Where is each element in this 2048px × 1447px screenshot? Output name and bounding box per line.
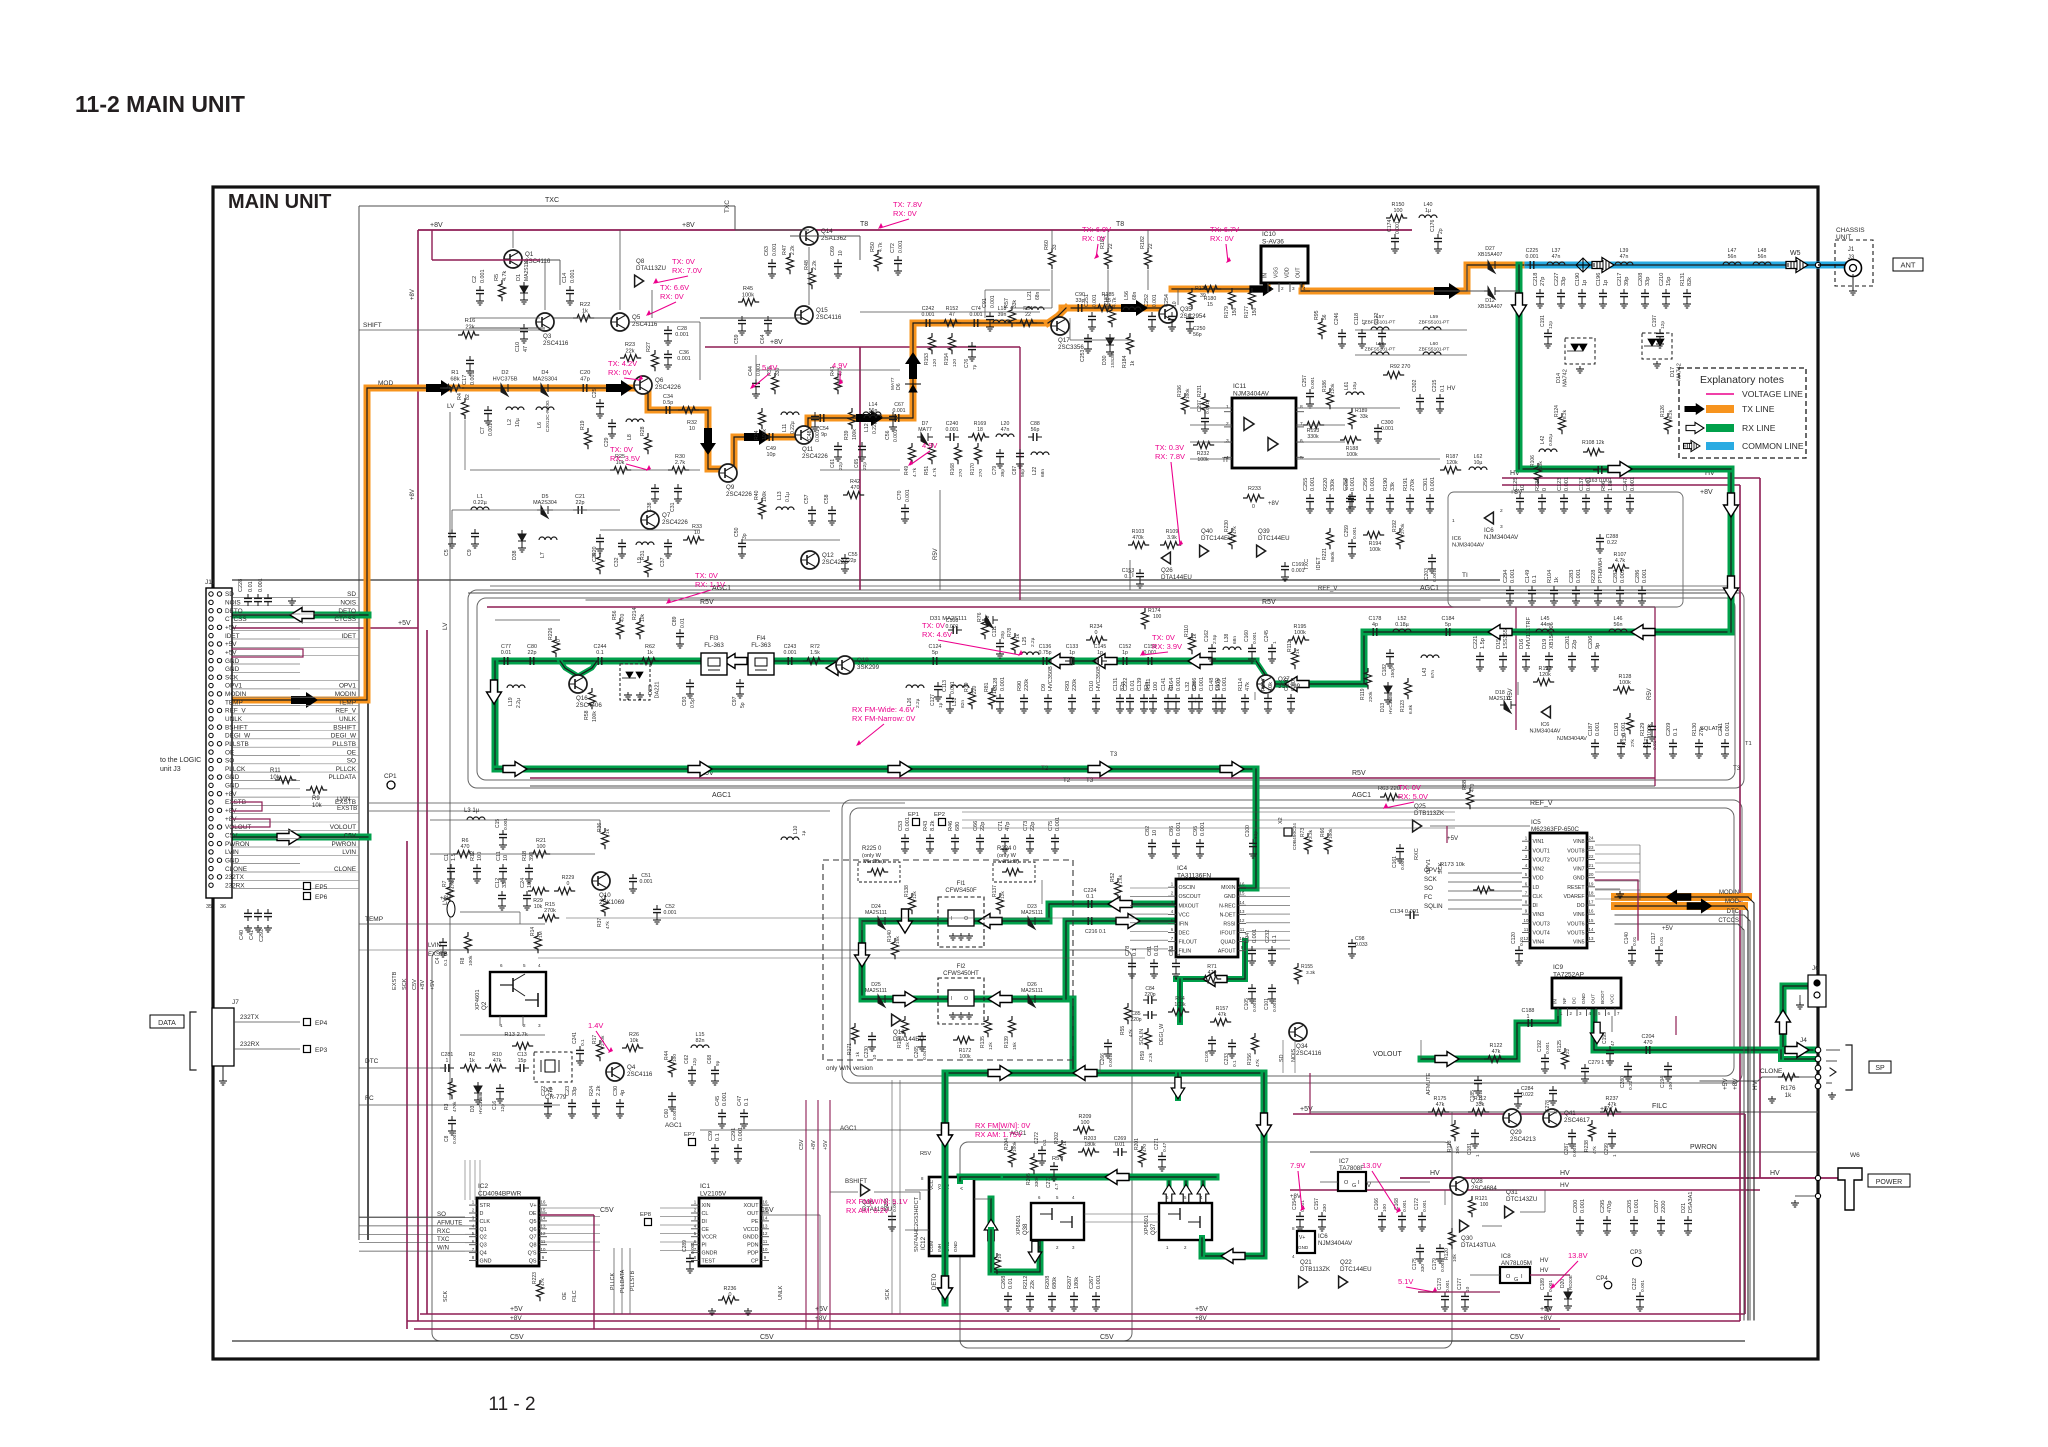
inductor L1 [471, 507, 489, 510]
capacitor C105 [1251, 984, 1253, 988]
test point CP4 [1604, 1281, 1612, 1289]
svg-text:56p: 56p [1020, 469, 1026, 477]
svg-text:R195: R195 [1294, 624, 1307, 630]
diode D14 MA742 dashed [1565, 338, 1595, 364]
resistor R51 [929, 443, 936, 464]
svg-text:I: I [951, 996, 952, 1002]
svg-text:10k: 10k [312, 803, 323, 809]
svg-text:0.01: 0.01 [1154, 945, 1160, 956]
svg-text:470p: 470p [1607, 1201, 1613, 1213]
svg-text:0: 0 [1252, 504, 1255, 510]
svg-text:C218: C218 [1533, 273, 1539, 286]
transistor pair Q38 XP6501 [1031, 1203, 1084, 1240]
capacitor C81 [1153, 959, 1155, 963]
svg-text:L45: L45 [1541, 616, 1550, 622]
capacitor C134 [1405, 914, 1410, 916]
svg-text:R5V: R5V [700, 599, 714, 606]
svg-text:7p: 7p [972, 364, 978, 370]
capacitor C206 [1594, 652, 1596, 656]
svg-text:OE: OE [529, 1211, 537, 1217]
svg-text:J6: J6 [1812, 965, 1819, 972]
svg-text:22p: 22p [862, 462, 868, 470]
resistor R184 [1127, 333, 1134, 354]
svg-text:Q29: Q29 [1510, 1129, 1522, 1136]
svg-text:R108 12k: R108 12k [1582, 440, 1605, 446]
capacitor C291 [737, 1144, 739, 1148]
svg-text:TX: 0.3V: TX: 0.3V [1155, 443, 1184, 452]
capacitor C40 C41 C292 group [247, 909, 249, 913]
ANT label box [1893, 258, 1923, 271]
svg-text:L15: L15 [696, 1032, 705, 1038]
svg-text:AGC1: AGC1 [1352, 792, 1371, 799]
svg-text:CP3: CP3 [1630, 1250, 1642, 1256]
svg-text:VCC: VCC [929, 1179, 935, 1190]
svg-text:C53: C53 [898, 821, 904, 831]
svg-text:4.7k: 4.7k [502, 271, 508, 281]
transistor Q4 [606, 1063, 624, 1081]
svg-text:10: 10 [763, 1247, 768, 1252]
resistor R22 [573, 315, 594, 322]
svg-text:unit J3: unit J3 [160, 766, 181, 773]
svg-text:Q6: Q6 [529, 1227, 536, 1233]
wire R5V branch vertical [1515, 607, 1517, 730]
svg-text:47k: 47k [1492, 1049, 1501, 1055]
svg-text:NJM3404AV: NJM3404AV [1452, 543, 1484, 549]
transistor Q26 [1161, 552, 1170, 564]
resistor R152 [940, 320, 961, 327]
analog switch IC12 SN74AHC2G53HDCT [929, 1177, 974, 1256]
svg-text:VIN6: VIN6 [1573, 912, 1585, 918]
svg-text:C187: C187 [1588, 723, 1594, 736]
diode D7 [917, 433, 933, 445]
capacitor C299 [1611, 1129, 1613, 1133]
resistor R234 [1086, 637, 1107, 644]
svg-text:0: 0 [729, 1292, 732, 1298]
svg-text:120: 120 [952, 359, 958, 367]
svg-text:L21: L21 [1027, 291, 1033, 300]
svg-text:SO: SO [347, 758, 356, 765]
svg-text:+8V: +8V [1195, 1315, 1207, 1322]
svg-text:2.2µ: 2.2µ [516, 698, 522, 708]
svg-text:Q3: Q3 [543, 333, 552, 340]
svg-text:L57: L57 [1376, 314, 1384, 320]
transistor Q15 [795, 306, 813, 324]
svg-text:220: 220 [972, 685, 978, 694]
svg-text:C188: C188 [1522, 1008, 1535, 1014]
svg-text:PLLSTB: PLLSTB [630, 1271, 636, 1291]
wire 232RX [234, 1048, 300, 1050]
svg-text:VCCR: VCCR [702, 1235, 717, 1241]
capacitor C204 [1641, 1049, 1646, 1051]
wire RX line Q37 stub overlay [1199, 1238, 1205, 1256]
capacitor C1 [450, 864, 452, 868]
svg-text:DTC144EU: DTC144EU [1340, 1266, 1372, 1273]
resistor R195 [1288, 637, 1309, 644]
svg-text:QUAD: QUAD [1221, 940, 1236, 946]
capacitor C22 [547, 1099, 549, 1103]
svg-text:MA742: MA742 [1676, 363, 1682, 381]
svg-text:C178: C178 [1369, 616, 1382, 622]
svg-text:C163 0.001: C163 0.001 [1585, 478, 1612, 484]
svg-text:R153: R153 [924, 353, 930, 365]
svg-text:15k: 15k [1012, 1042, 1018, 1050]
svg-text:1: 1 [1226, 404, 1229, 410]
wire TX line Q6-Q9 jog [648, 388, 726, 469]
inductor L37 [1547, 262, 1565, 265]
svg-text:47k: 47k [605, 921, 611, 929]
wire SD NOIS risers [1282, 1040, 1284, 1073]
svg-text:+5V: +5V [1662, 926, 1673, 932]
resistor R72 [803, 658, 824, 665]
svg-text:C118: C118 [1354, 313, 1360, 325]
svg-text:LV: LV [442, 622, 449, 630]
inductor L18 [993, 320, 1011, 323]
svg-text:14: 14 [763, 1215, 768, 1220]
svg-text:680: 680 [955, 822, 961, 831]
J11 pin LVIN [209, 850, 213, 854]
svg-text:C5V: C5V [1100, 1334, 1114, 1341]
resistor R39 [849, 408, 856, 429]
svg-text:0.82µ: 0.82µ [1548, 434, 1554, 446]
svg-text:DEC: DEC [1179, 931, 1190, 937]
capacitor C56 [892, 412, 894, 416]
capacitor C71 [1004, 834, 1006, 838]
legend TX line [1706, 405, 1734, 413]
svg-text:X2: X2 [1278, 817, 1284, 824]
svg-text:2SC4116: 2SC4116 [627, 1071, 653, 1078]
capacitor C101 [1271, 984, 1273, 988]
svg-text:R124: R124 [1554, 405, 1560, 417]
svg-text:OUT: OUT [747, 1211, 759, 1217]
svg-text:C60: C60 [664, 1109, 670, 1118]
capacitor C259 [1351, 539, 1353, 543]
resistor R171 [852, 1023, 859, 1044]
svg-text:IC11: IC11 [1233, 383, 1247, 390]
svg-text:33p: 33p [1645, 277, 1651, 286]
svg-text:Q5: Q5 [632, 314, 641, 321]
capacitor C184 [1441, 631, 1446, 633]
svg-text:C299: C299 [1604, 1143, 1610, 1155]
resistor R224 dashed only W [993, 862, 1035, 882]
wire RX line Q16 dip [560, 661, 597, 676]
svg-text:C246: C246 [1334, 312, 1340, 325]
capacitor C20 [578, 387, 583, 389]
svg-text:47k: 47k [540, 1278, 546, 1286]
svg-text:R7: R7 [442, 880, 448, 887]
svg-text:R31: R31 [640, 550, 646, 560]
svg-text:0.001: 0.001 [672, 1108, 678, 1120]
svg-text:C279 1: C279 1 [1588, 1060, 1604, 1066]
svg-text:+5V: +5V [398, 620, 411, 627]
svg-text:0.001: 0.001 [1630, 477, 1636, 491]
svg-text:EXSTB: EXSTB [392, 971, 398, 990]
resistor R168 [955, 443, 962, 464]
wire L3 temp mesh [460, 911, 520, 913]
capacitor C86 [1175, 839, 1177, 843]
capacitor C191 [1547, 329, 1549, 333]
svg-text:R168: R168 [950, 463, 956, 475]
capacitor C215 [1439, 394, 1441, 398]
svg-text:2: 2 [1281, 286, 1284, 291]
svg-text:R113: R113 [1287, 640, 1293, 652]
svg-text:68n: 68n [1040, 469, 1046, 477]
resistor R183 [1109, 306, 1116, 327]
capacitor C28 [667, 326, 669, 330]
svg-text:82n: 82n [696, 1038, 705, 1044]
svg-text:C66: C66 [973, 821, 979, 831]
svg-text:R233: R233 [1248, 486, 1261, 492]
svg-text:PLLCK: PLLCK [336, 766, 357, 773]
svg-text:11: 11 [1524, 927, 1529, 932]
inductor L43 [1421, 655, 1439, 658]
capacitor C162 [1211, 644, 1213, 648]
svg-text:+5V: +5V [1195, 1306, 1208, 1313]
svg-text:HVC350B: HVC350B [1388, 694, 1393, 714]
capacitor C21 [573, 509, 578, 511]
svg-text:6: 6 [500, 963, 503, 968]
svg-text:W5: W5 [1790, 250, 1801, 257]
wire C5V left vertical rail [406, 841, 408, 1329]
J11 pin GND [209, 775, 213, 779]
capacitor C228 group [247, 594, 249, 598]
svg-text:0.001: 0.001 [1440, 1260, 1446, 1272]
svg-text:R11: R11 [270, 768, 281, 774]
diode D2 [497, 384, 513, 396]
node W5 junction [1849, 262, 1855, 268]
svg-text:C134 0.001: C134 0.001 [1390, 909, 1419, 915]
inductor L7 [539, 537, 557, 540]
inductor L8 [626, 419, 644, 422]
wire Q14 emitter [790, 235, 860, 237]
svg-text:C11: C11 [496, 851, 502, 861]
svg-text:C140: C140 [1624, 932, 1630, 944]
inductor L11 [781, 412, 799, 415]
wire RX line DETO down [942, 1073, 949, 1177]
resistor R225 dashed only W [858, 862, 900, 882]
svg-text:C93: C93 [682, 696, 688, 706]
resistor R138 [909, 893, 916, 914]
resistor R19 [585, 428, 592, 449]
svg-text:AFOUT: AFOUT [1218, 949, 1236, 955]
svg-text:R32: R32 [687, 420, 697, 426]
svg-text:47p: 47p [580, 377, 590, 383]
svg-text:120k: 120k [1446, 460, 1458, 466]
capacitor C13 [515, 1067, 520, 1069]
svg-text:SCK: SCK [1424, 876, 1438, 883]
capacitor C241 [579, 1046, 581, 1050]
svg-text:DI: DI [702, 1219, 707, 1225]
svg-text:RX: 3.5V: RX: 3.5V [610, 454, 640, 463]
J11 pin DETO [209, 608, 213, 612]
resistor R1 [443, 385, 464, 392]
svg-text:0.01: 0.01 [1652, 740, 1658, 750]
svg-text:R5V: R5V [1647, 688, 1653, 700]
svg-text:470: 470 [1142, 1144, 1148, 1152]
svg-text:T2: T2 [1041, 765, 1049, 772]
svg-text:10k: 10k [630, 1038, 639, 1044]
svg-text:MA2S111: MA2S111 [1021, 988, 1043, 994]
svg-text:1k: 1k [1785, 1092, 1793, 1099]
svg-text:CLONE: CLONE [334, 866, 356, 873]
svg-text:DTC144EU: DTC144EU [1258, 535, 1290, 542]
capacitor C45 [721, 1109, 723, 1113]
svg-text:V+: V+ [1299, 1235, 1305, 1241]
svg-text:0.001: 0.001 [677, 356, 691, 362]
svg-text:C28: C28 [677, 326, 687, 332]
svg-text:C241: C241 [572, 1032, 578, 1044]
svg-text:C69: C69 [830, 246, 836, 256]
svg-text:4.9V: 4.9V [922, 441, 937, 450]
resistor R182 [1145, 248, 1152, 269]
wire TX line MODIN row [222, 388, 648, 700]
resistor R209 [1073, 1127, 1094, 1134]
svg-text:2SC4226: 2SC4226 [662, 519, 688, 526]
svg-text:68k: 68k [450, 377, 459, 383]
J11 pin VOLOUT [209, 825, 213, 829]
svg-text:2SC4116: 2SC4116 [1296, 1050, 1322, 1057]
svg-text:68n: 68n [1232, 636, 1238, 644]
svg-text:R66: R66 [1320, 828, 1326, 837]
svg-text:HVC350B: HVC350B [1048, 666, 1054, 691]
svg-text:470: 470 [1208, 970, 1217, 976]
svg-text:T2: T2 [1063, 777, 1071, 784]
resistor R180 [1200, 286, 1221, 293]
svg-text:0.1: 0.1 [1673, 728, 1679, 736]
svg-text:10k: 10k [640, 613, 646, 622]
svg-text:12: 12 [1240, 918, 1245, 923]
crystal X1 CR-779 dashed [534, 1052, 572, 1082]
node IF block outline [842, 800, 1742, 1083]
resistor R178 [1189, 288, 1196, 309]
svg-text:15: 15 [1240, 891, 1245, 896]
svg-text:C94: C94 [1245, 933, 1251, 943]
pll IC1 LV2105V [699, 1198, 761, 1266]
wire IC1 net [761, 1214, 820, 1216]
resistor R237 [1600, 1109, 1621, 1116]
capacitor C170 [1221, 694, 1223, 698]
svg-text:2: 2 [1226, 421, 1229, 427]
svg-text:10: 10 [838, 250, 844, 256]
J11 pin PWRON [209, 841, 213, 845]
wire bottom +8V rail [407, 1320, 1740, 1322]
capacitor C118 [1361, 329, 1363, 333]
resistor R221 [1327, 528, 1334, 549]
svg-text:FI4: FI4 [757, 635, 766, 642]
svg-text:0.001: 0.001 [452, 1132, 458, 1144]
transistor Q41 [1543, 1109, 1561, 1127]
resistor R128 [1613, 687, 1634, 694]
svg-text:OPV1: OPV1 [1426, 859, 1432, 874]
capacitor C294 [1509, 586, 1511, 590]
resistor R4 [462, 398, 469, 419]
svg-text:100k: 100k [762, 429, 768, 440]
wire Q15 base [700, 317, 795, 319]
svg-text:R39: R39 [844, 430, 850, 440]
svg-text:C41: C41 [249, 930, 255, 940]
capacitor C51 [632, 874, 634, 878]
transistor Q8 [635, 275, 644, 287]
svg-text:C5V: C5V [412, 979, 418, 990]
svg-text:VOUT2: VOUT2 [1533, 858, 1550, 864]
EP5 jumper [304, 883, 311, 890]
svg-text:0.001: 0.001 [690, 1242, 696, 1254]
wire LVIN row [430, 819, 600, 821]
capacitor C55 [844, 554, 846, 558]
svg-text:0.001: 0.001 [1595, 722, 1601, 736]
svg-text:R107: R107 [1614, 552, 1627, 558]
J11 pin NOIS [209, 600, 213, 604]
J11 pin SD [209, 592, 213, 596]
svg-text:R117: R117 [1261, 678, 1267, 691]
svg-text:47k: 47k [1218, 1012, 1227, 1018]
resistor R16 [458, 332, 479, 339]
svg-text:15: 15 [1589, 918, 1594, 923]
capacitor C233 [1231, 1039, 1233, 1043]
svg-text:C139: C139 [1137, 678, 1143, 691]
J11 pin CLONE [209, 866, 213, 870]
svg-text:SCK: SCK [402, 978, 408, 990]
svg-text:COM: COM [929, 1241, 935, 1252]
svg-text:C101: C101 [1264, 998, 1270, 1010]
svg-text:AFMUTE: AFMUTE [1426, 1072, 1432, 1095]
transistor pair Q37 XP6501 [1159, 1203, 1212, 1240]
legend voltage line [1706, 393, 1734, 395]
svg-text:PDN: PDN [747, 1243, 758, 1249]
svg-text:VCC: VCC [1179, 912, 1190, 918]
svg-text:0.01: 0.01 [1115, 1142, 1125, 1148]
resistor R59 [1145, 1028, 1152, 1049]
svg-text:AGC1: AGC1 [840, 1125, 857, 1132]
svg-text:680k: 680k [1052, 1277, 1058, 1289]
J11 pin +8V [209, 791, 213, 795]
wire RX line AGC bus lower [947, 1070, 1264, 1077]
capacitor C247 [1629, 494, 1631, 498]
svg-text:0.001: 0.001 [1200, 822, 1206, 836]
resistor R107 [1608, 565, 1629, 572]
capacitor C70 [904, 504, 906, 508]
op-amp IC5 M62363FP-650C [1530, 833, 1587, 948]
svg-text:100k: 100k [959, 1054, 971, 1060]
svg-text:C197: C197 [1652, 315, 1658, 327]
svg-text:R226: R226 [548, 627, 554, 640]
resistor R32 [678, 407, 699, 414]
svg-text:R234: R234 [1090, 624, 1103, 630]
diode D13 [1384, 682, 1392, 697]
transistor Q34 [1289, 1023, 1307, 1041]
svg-text:100: 100 [537, 844, 546, 850]
svg-text:4.7k: 4.7k [878, 242, 884, 252]
svg-text:T3: T3 [1086, 777, 1094, 784]
capacitor C188 [1523, 1022, 1528, 1024]
wire W5 to ANT [1818, 264, 1844, 266]
svg-text:22k: 22k [1030, 1280, 1036, 1289]
svg-text:C16: C16 [492, 1101, 498, 1110]
svg-text:C63: C63 [764, 246, 770, 256]
svg-text:TX: 0V: TX: 0V [1398, 783, 1421, 792]
diode D27 [1484, 261, 1500, 273]
ground IC5 VDAREF [1595, 888, 1620, 890]
resistor R31 [645, 556, 652, 577]
svg-text:0.1: 0.1 [580, 1039, 586, 1046]
component D9 [1047, 694, 1049, 698]
wire +5V audio rail [1293, 1113, 1745, 1115]
capacitor C265a [921, 1032, 923, 1036]
svg-text:C5V: C5V [1510, 1334, 1524, 1341]
J11 pin C5V [209, 833, 213, 837]
svg-text:0.001: 0.001 [1576, 569, 1582, 583]
svg-text:D4: D4 [541, 370, 548, 376]
J11 pin GND [209, 783, 213, 787]
